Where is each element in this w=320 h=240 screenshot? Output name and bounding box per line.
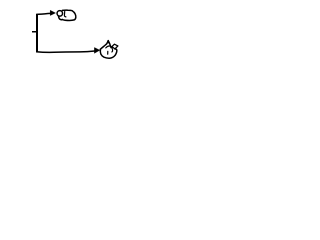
wire: left stub tick bbox=[32, 31, 37, 33]
node: bottom doodle blob bbox=[100, 40, 118, 58]
node: bottom doodle peak junction bbox=[107, 40, 110, 43]
node: top doodle body outline bbox=[62, 10, 76, 20]
node: top doodle inner fold bbox=[64, 12, 66, 17]
node: top doodle tail stroke bbox=[59, 16, 63, 20]
node: bottom doodle crease bbox=[107, 51, 109, 54]
node: bottom doodle body outline bbox=[100, 49, 117, 58]
node: bottom doodle left ridge bbox=[100, 41, 108, 50]
node: top doodle head circle bbox=[57, 11, 63, 17]
arrowhead: top branch bbox=[50, 10, 55, 15]
node: bottom doodle ridge down-stroke bbox=[108, 41, 111, 48]
wire: vertical bus line bbox=[36, 14, 38, 52]
arrowhead: bottom branch bbox=[94, 48, 99, 54]
wire: bottom branch horizontal bbox=[36, 51, 94, 52]
node: bottom doodle inner arc bbox=[106, 46, 113, 52]
wire: top branch horizontal bbox=[36, 13, 50, 14]
node: top doodle blob bbox=[57, 10, 76, 20]
node: bottom doodle diamond bud bbox=[112, 44, 118, 49]
